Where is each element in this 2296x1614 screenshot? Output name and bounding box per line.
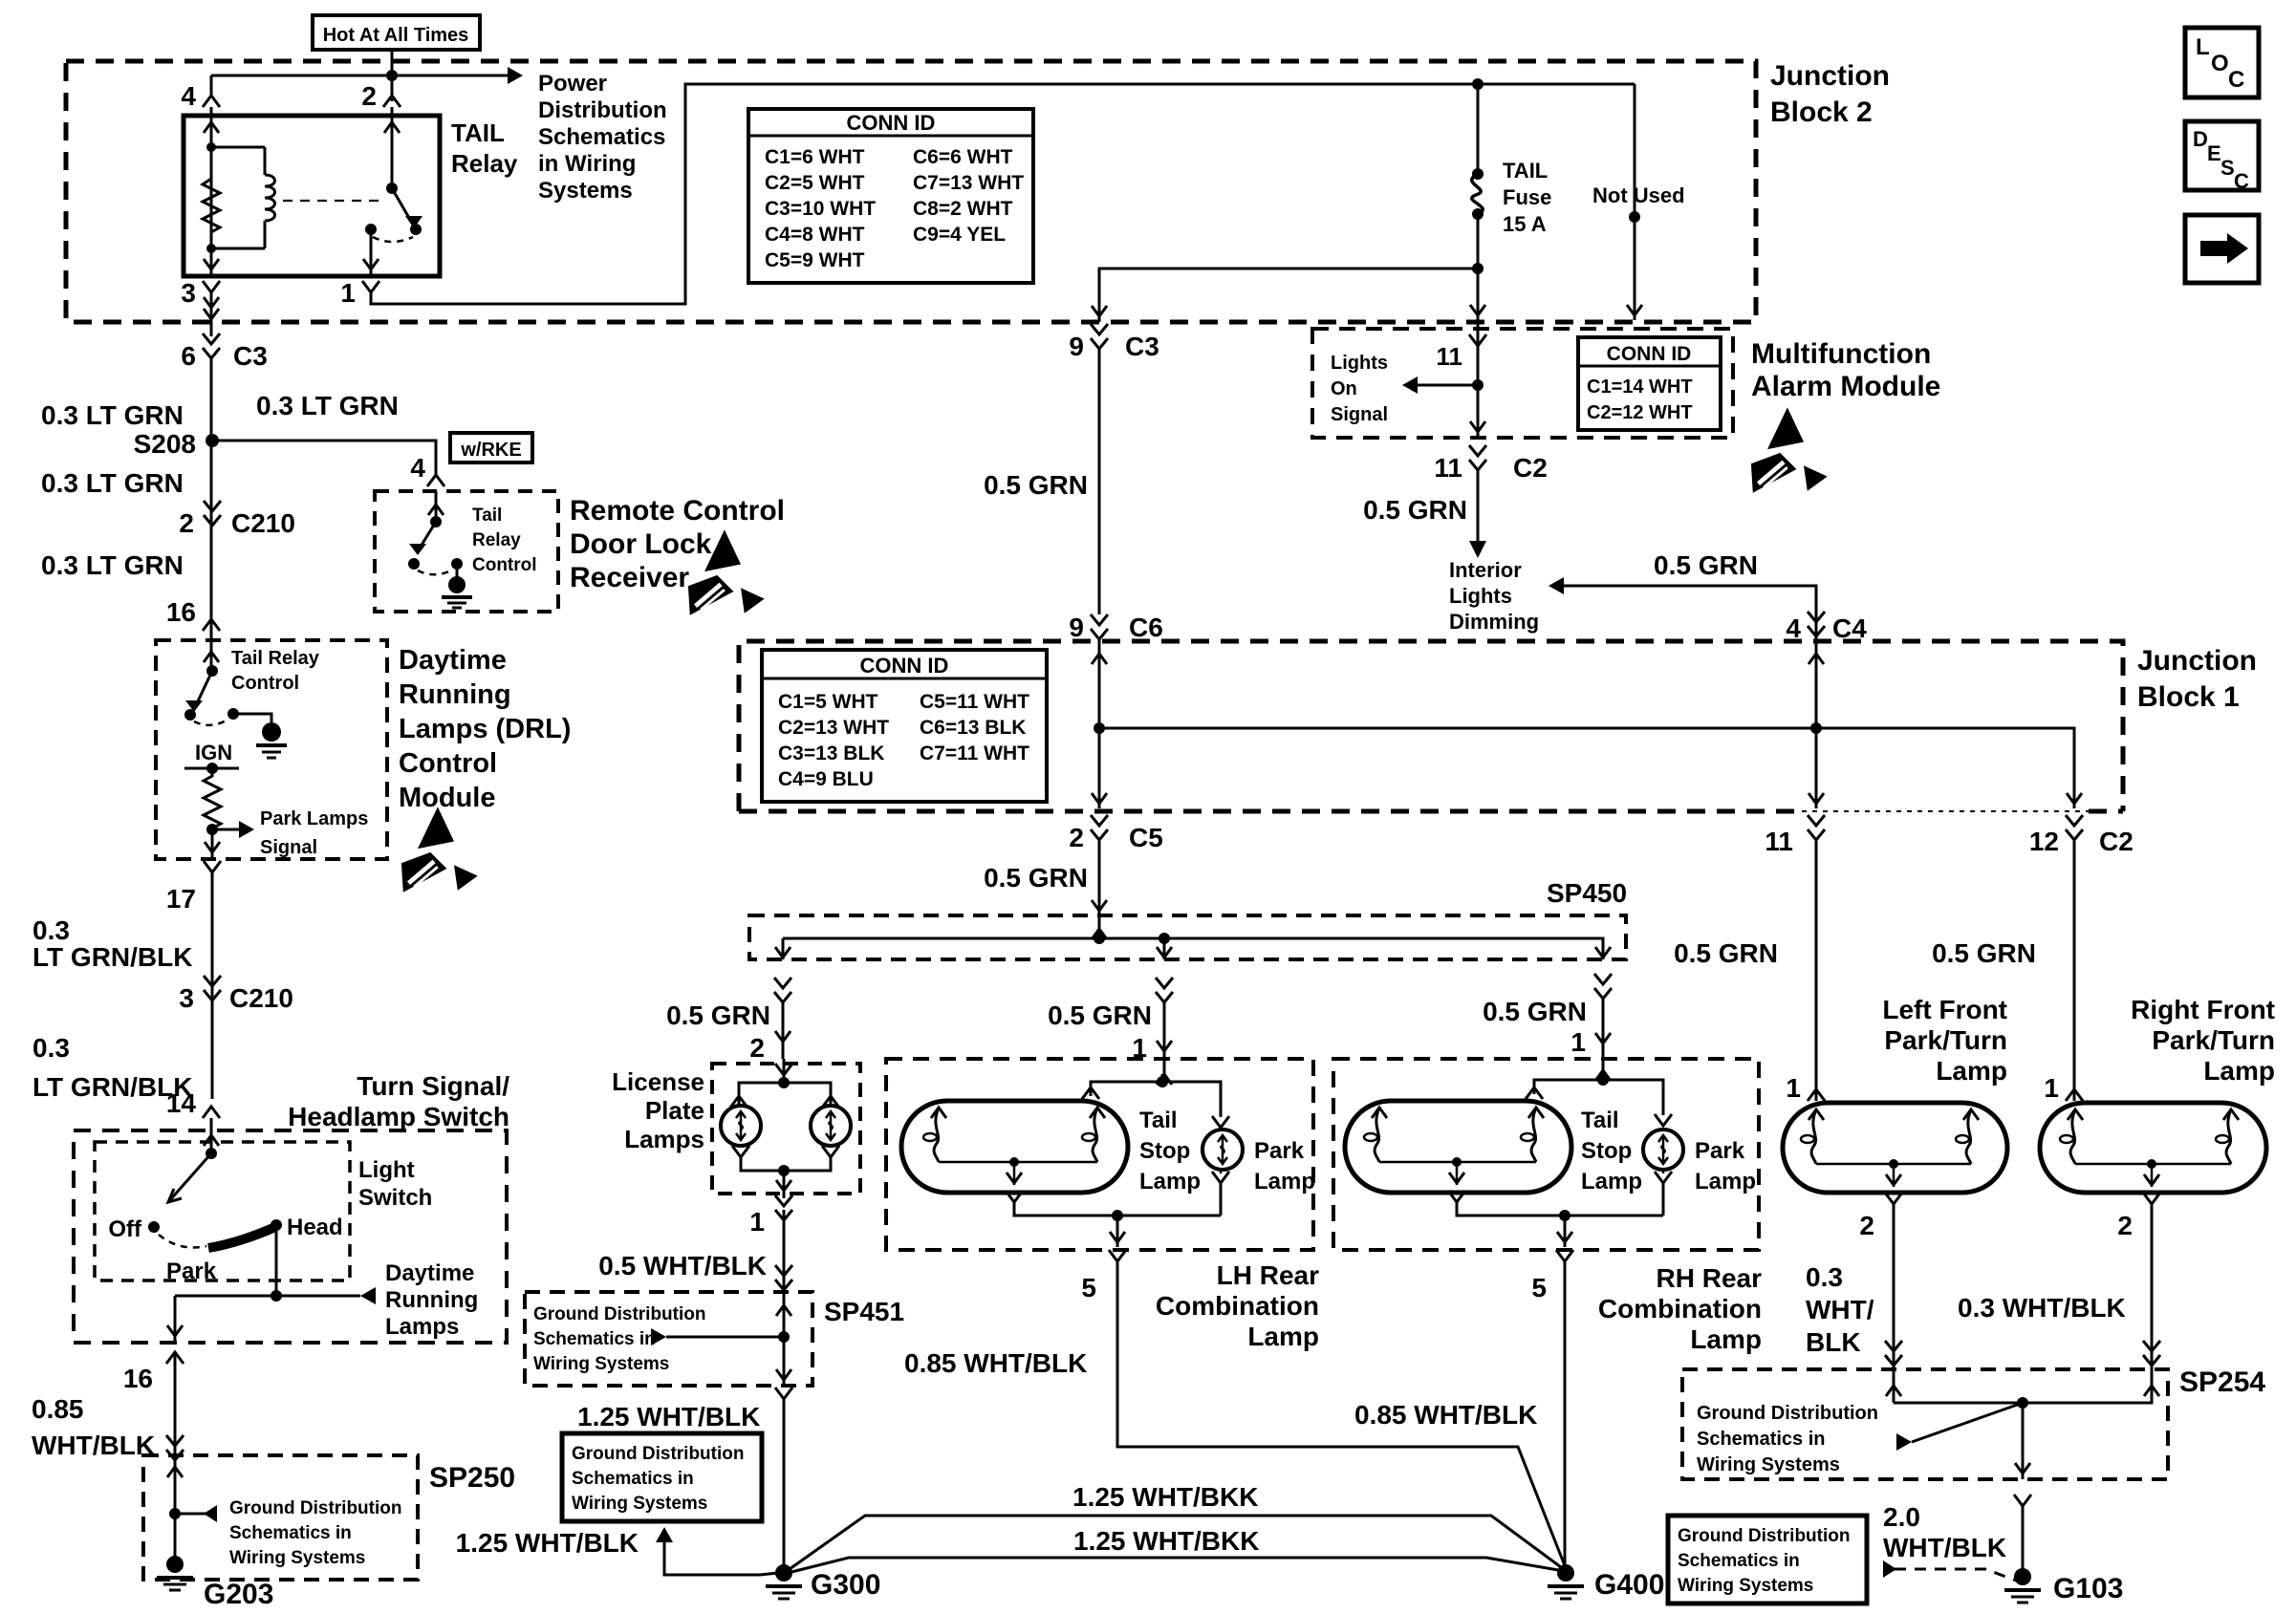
dashed relay actuation link	[283, 200, 386, 202]
svg-text:LT GRN/BLK: LT GRN/BLK	[32, 942, 192, 972]
svg-text:0.5 GRN: 0.5 GRN	[984, 863, 1088, 893]
node power-rail junction	[386, 70, 398, 81]
wire park lamps signal	[212, 829, 239, 831]
wire lh to G400	[1117, 1261, 1566, 1568]
connector switch pin 14	[203, 1107, 220, 1118]
lh rear combination lamp dashed box	[886, 1059, 1313, 1250]
wire relay common out	[370, 229, 373, 276]
svg-text:S208: S208	[134, 429, 196, 459]
svg-text:Tail: Tail	[472, 506, 502, 526]
svg-text:Control: Control	[472, 555, 537, 575]
wire SP254 rail left	[1894, 1402, 2023, 1405]
node not-used terminal	[1629, 211, 1640, 223]
connector relay pin 2	[383, 96, 401, 107]
svg-text:Lamp: Lamp	[1581, 1169, 1642, 1194]
connector lh park fork	[1212, 1116, 1229, 1128]
svg-text:16: 16	[166, 597, 196, 627]
filament lh stop	[931, 1108, 946, 1118]
node contact Head	[271, 1219, 282, 1231]
arrow park lamps signal	[239, 821, 254, 838]
connector C3 pin 6	[203, 334, 220, 344]
svg-text:Plate: Plate	[645, 1096, 704, 1125]
svg-text:CONN ID: CONN ID	[1607, 343, 1692, 365]
arrow lights-on	[1402, 377, 1418, 394]
node lh feed split	[1157, 1076, 1168, 1087]
svg-text:Lamps (DRL): Lamps (DRL)	[399, 714, 571, 744]
svg-text:Lamp: Lamp	[1247, 1322, 1319, 1351]
wire IGN rail	[184, 767, 239, 770]
node fuse-rail tap	[1472, 78, 1484, 90]
wire RKE ground stem	[456, 564, 459, 581]
lamp license left	[721, 1106, 761, 1146]
svg-text:C5=9 WHT: C5=9 WHT	[765, 249, 865, 271]
arrow ref to G300	[656, 1527, 673, 1542]
wire SP250 ref	[175, 1513, 215, 1516]
svg-text:0.5 GRN: 0.5 GRN	[1363, 495, 1467, 525]
connector JB1 pin 11	[1808, 815, 1825, 826]
dashed ref wire to G103	[1895, 1569, 2019, 1582]
svg-text:Relay: Relay	[451, 149, 518, 178]
svg-text:C9=4 YEL: C9=4 YEL	[913, 224, 1006, 246]
svg-text:LH Rear: LH Rear	[1217, 1260, 1319, 1290]
connector lh pin 1	[1156, 978, 1173, 988]
wire pin1 loop to fuse rail	[371, 84, 1635, 304]
splice SP254 dashed box	[1682, 1369, 2168, 1479]
connector license bulb R out	[822, 1146, 839, 1157]
svg-text:C2: C2	[2099, 827, 2134, 856]
svg-text:Park: Park	[166, 1259, 217, 1284]
filament lf turn	[1963, 1109, 1979, 1120]
node license out	[778, 1165, 790, 1176]
arrow to power distribution	[508, 67, 523, 84]
svg-text:Dimming: Dimming	[1449, 610, 1539, 634]
wire lights-on branch	[1418, 384, 1478, 387]
svg-text:1: 1	[2044, 1073, 2059, 1103]
svg-text:0.5 GRN: 0.5 GRN	[984, 470, 1088, 500]
svg-text:Wiring Systems: Wiring Systems	[1678, 1576, 1813, 1596]
node contact Off	[148, 1221, 160, 1233]
connector rh stadium out	[1448, 1191, 1465, 1202]
svg-text:Control: Control	[399, 748, 497, 779]
svg-text:Tail: Tail	[1581, 1108, 1619, 1133]
lamp rh park	[1643, 1130, 1683, 1170]
svg-text:2: 2	[749, 1033, 765, 1063]
connector C6 pin 9	[1091, 614, 1108, 625]
wire SP250 entry arrow	[167, 1467, 183, 1477]
remote control door lock receiver dashed box	[375, 491, 558, 612]
fuse TAIL 15A	[1472, 168, 1484, 180]
wire ground link A	[790, 1516, 1561, 1569]
wire rh ground drop	[1564, 1216, 1567, 1247]
wire S208 branch to RKE	[212, 441, 436, 475]
svg-text:C1=5 WHT: C1=5 WHT	[778, 691, 878, 713]
wire rh ground rail	[1457, 1202, 1663, 1216]
svg-text:Receiver: Receiver	[570, 562, 689, 593]
wire C5 to SP450	[1098, 840, 1101, 917]
wire G103 drop	[2022, 1506, 2025, 1573]
svg-text:Ground Distribution: Ground Distribution	[572, 1444, 744, 1464]
svg-text:Park/Turn: Park/Turn	[2152, 1025, 2275, 1055]
svg-text:Tail: Tail	[1139, 1108, 1178, 1133]
svg-text:TAIL: TAIL	[1503, 159, 1548, 183]
svg-text:Combination: Combination	[1598, 1294, 1762, 1323]
node coil bottom	[206, 244, 216, 253]
RKE switch arm	[421, 522, 436, 547]
filament rh stop	[1372, 1108, 1387, 1118]
wire rh lamp drop	[1602, 999, 1605, 1080]
svg-text:C: C	[2234, 169, 2249, 193]
svg-text:O: O	[2211, 51, 2229, 76]
svg-text:16: 16	[123, 1364, 153, 1393]
svg-text:Door Lock: Door Lock	[570, 528, 712, 560]
svg-text:Lamps: Lamps	[624, 1125, 704, 1153]
wire ref to G300	[664, 1540, 778, 1575]
wire ground link B	[788, 1558, 1558, 1573]
svg-text:C2: C2	[1513, 453, 1548, 483]
wire 0.5 GRN C3 to C6	[1098, 349, 1101, 614]
arrow SP450 exit lh	[1157, 947, 1172, 958]
connector lh tail fork	[1082, 1087, 1099, 1099]
arrow SP451 ref	[651, 1328, 666, 1345]
svg-text:Lamp: Lamp	[1690, 1324, 1762, 1354]
svg-text:Ground Distribution: Ground Distribution	[1697, 1403, 1878, 1424]
svg-text:Schematics: Schematics	[538, 124, 665, 150]
node rh inner	[1452, 1157, 1462, 1167]
svg-text:C7=13 WHT: C7=13 WHT	[913, 172, 1024, 194]
svg-text:Lamps: Lamps	[385, 1314, 459, 1340]
wire SP450 entry	[1098, 917, 1101, 938]
connector C5 pin 2	[1091, 815, 1108, 826]
svg-text:0.85 WHT/BLK: 0.85 WHT/BLK	[904, 1348, 1087, 1378]
node IGN tap	[206, 763, 218, 774]
node rf inner	[2147, 1159, 2156, 1169]
turn signal/headlamp switch dashed box	[74, 1130, 507, 1343]
wire lh inner drop	[1013, 1162, 1016, 1185]
svg-text:Multifunction: Multifunction	[1751, 338, 1931, 370]
svg-text:C210: C210	[231, 508, 295, 538]
wire SP451 ref	[666, 1336, 784, 1339]
DRL control module dashed box	[156, 640, 387, 859]
connector DRL pin 16	[203, 619, 220, 631]
wire lh ground drop	[1116, 1216, 1119, 1247]
ground G300	[775, 1564, 792, 1582]
light switch dashed box	[95, 1142, 350, 1280]
wire JB1 internal rail	[1099, 728, 2074, 808]
ground RKE internal	[448, 576, 466, 593]
svg-text:C5=11 WHT: C5=11 WHT	[920, 691, 1029, 713]
junction block 1 dashed enclosure	[739, 641, 2123, 811]
node JB1 rail left	[1094, 722, 1105, 734]
svg-text:Module: Module	[399, 783, 496, 813]
connector switch pin 16	[166, 1352, 184, 1364]
connector relay pin 3	[203, 281, 220, 292]
connector C4 pin 4	[1808, 612, 1825, 622]
ground G203	[166, 1556, 184, 1573]
node RKE contact	[408, 558, 420, 570]
svg-text:BLK: BLK	[1806, 1327, 1861, 1357]
svg-text:C2=5 WHT: C2=5 WHT	[765, 172, 865, 194]
wire JB1 left vertical	[1098, 638, 1101, 808]
node lh ground	[1112, 1210, 1123, 1221]
svg-text:Wiring Systems: Wiring Systems	[572, 1494, 707, 1514]
svg-text:C3: C3	[1125, 332, 1159, 361]
wire rh inner drop	[1456, 1162, 1459, 1185]
svg-text:Park/Turn: Park/Turn	[1884, 1025, 2007, 1055]
stadium rf park/turn lamp	[2040, 1103, 2266, 1193]
svg-text:SP451: SP451	[824, 1297, 904, 1326]
svg-text:17: 17	[166, 884, 196, 914]
svg-text:0.85 WHT/BLK: 0.85 WHT/BLK	[1354, 1400, 1537, 1430]
svg-text:11: 11	[1765, 827, 1793, 856]
DRL switch arm	[197, 671, 212, 703]
svg-text:Head: Head	[287, 1215, 343, 1240]
conn id table JB2	[748, 109, 1033, 283]
wire rf to SP254	[2023, 1204, 2152, 1403]
wire license to SP451	[783, 1210, 786, 1294]
wire license rail	[739, 1083, 831, 1106]
svg-text:L: L	[2196, 34, 2210, 60]
wire SP254 ref diagonal	[1912, 1403, 2023, 1442]
wire head to rail	[275, 1225, 278, 1296]
arrow SP450 exit rh	[1595, 947, 1611, 958]
connector rf pin 2	[2143, 1193, 2160, 1204]
svg-text:9: 9	[1069, 613, 1084, 642]
TAIL relay box	[184, 116, 440, 276]
svg-text:Block 2: Block 2	[1770, 97, 1873, 128]
node fuse output tap	[1472, 263, 1484, 274]
svg-text:0.5 GRN: 0.5 GRN	[1483, 997, 1587, 1026]
wire TAIL fuse upper	[1477, 84, 1480, 172]
svg-text:Lamp: Lamp	[1139, 1169, 1201, 1194]
svg-text:Daytime: Daytime	[399, 645, 507, 676]
node RKE common	[451, 558, 463, 570]
wire SP450 lh drop	[1163, 938, 1166, 959]
svg-text:Signal: Signal	[1331, 404, 1388, 425]
arrow dimming feed	[1549, 577, 1564, 594]
svg-text:1.25 WHT/BKK: 1.25 WHT/BKK	[1073, 1526, 1259, 1556]
svg-text:5: 5	[1531, 1273, 1547, 1302]
w/RKE box	[450, 433, 532, 463]
dashed RKE arc	[418, 570, 453, 574]
connector lf pin 2	[1885, 1193, 1902, 1204]
svg-text:Daytime: Daytime	[385, 1260, 474, 1286]
svg-text:Wiring Systems: Wiring Systems	[1697, 1454, 1840, 1475]
connector rh park fork	[1655, 1114, 1672, 1126]
ground DRL internal	[262, 722, 281, 742]
node DRL common	[227, 708, 239, 720]
svg-text:4: 4	[181, 81, 196, 111]
svg-text:Lamp: Lamp	[1936, 1056, 2007, 1086]
svg-text:Hot At All Times: Hot At All Times	[323, 25, 469, 46]
wire coil branch bottom	[211, 247, 265, 250]
svg-text:0.3: 0.3	[1806, 1262, 1843, 1292]
svg-text:0.3 LT GRN: 0.3 LT GRN	[256, 391, 399, 420]
svg-text:0.3 WHT/BLK: 0.3 WHT/BLK	[1958, 1293, 2126, 1323]
wire relay coil leg	[210, 107, 213, 276]
svg-text:1.25 WHT/BKK: 1.25 WHT/BKK	[1072, 1482, 1258, 1512]
svg-text:0.5 GRN: 0.5 GRN	[1654, 550, 1758, 580]
svg-text:IGN: IGN	[195, 741, 232, 764]
arrow daytime running lamps	[360, 1287, 376, 1304]
svg-text:Stop: Stop	[1581, 1138, 1632, 1164]
svg-text:G203: G203	[204, 1579, 273, 1609]
wire lf inner drop	[1893, 1164, 1895, 1187]
svg-text:14: 14	[166, 1088, 197, 1118]
stadium lf park/turn lamp	[1783, 1103, 2007, 1193]
svg-text:0.85: 0.85	[32, 1394, 84, 1424]
svg-text:Wiring Systems: Wiring Systems	[229, 1548, 365, 1568]
svg-text:C3=13 BLK: C3=13 BLK	[778, 742, 884, 764]
svg-text:C1=6 WHT: C1=6 WHT	[765, 146, 865, 168]
wire not-used drop	[1634, 84, 1636, 320]
svg-text:Off: Off	[108, 1216, 142, 1242]
wire DRL input	[210, 631, 213, 671]
wire SP250 to G203	[174, 1514, 177, 1558]
wire JB1 right vertical	[1815, 586, 1818, 808]
filament lf park	[1809, 1109, 1824, 1120]
svg-text:Systems: Systems	[538, 178, 633, 204]
connector C2 pin 11 (MF)	[1469, 445, 1486, 456]
wire license drop	[782, 1002, 785, 1059]
svg-text:C7=11 WHT: C7=11 WHT	[920, 742, 1029, 764]
svg-text:Turn Signal/: Turn Signal/	[357, 1071, 509, 1101]
svg-text:C4=9 BLU: C4=9 BLU	[778, 768, 874, 790]
connector C3 pin 9	[1091, 324, 1108, 334]
svg-text:SP450: SP450	[1547, 878, 1627, 908]
svg-text:Junction: Junction	[1770, 60, 1890, 92]
svg-text:2: 2	[361, 81, 377, 111]
connector license bulb L	[730, 1096, 747, 1108]
connector below SP451	[775, 1388, 792, 1399]
svg-text:WHT/BLK: WHT/BLK	[32, 1431, 155, 1460]
node rh feed split	[1597, 1074, 1609, 1086]
resistor DRL park-lamps	[204, 768, 221, 829]
conn id table JB1	[762, 650, 1047, 802]
arrow interior lights dimming down	[1469, 541, 1486, 558]
svg-text:Ground Distribution: Ground Distribution	[1678, 1526, 1850, 1546]
wire power distribution rail	[211, 75, 508, 77]
connector license pin 2	[774, 978, 791, 988]
node relay common	[365, 224, 377, 235]
wire lf lamp feed	[1815, 840, 1818, 1101]
wire license ground drop	[783, 1171, 786, 1198]
wire hot-feed vertical	[391, 50, 394, 101]
connector C210 pin 2	[204, 501, 221, 511]
svg-text:C4: C4	[1832, 613, 1867, 643]
svg-text:Distribution: Distribution	[538, 97, 667, 123]
wire SP451 entry	[783, 1294, 786, 1386]
svg-text:Schematics in: Schematics in	[1697, 1429, 1826, 1450]
svg-text:Relay: Relay	[472, 530, 521, 550]
svg-text:Remote Control: Remote Control	[570, 495, 785, 527]
svg-text:WHT/BLK: WHT/BLK	[1883, 1533, 2006, 1562]
svg-text:C2=13 WHT: C2=13 WHT	[778, 717, 889, 739]
svg-text:S: S	[2220, 156, 2235, 180]
wire lh lamp drop	[1163, 1002, 1166, 1080]
svg-text:CONN ID: CONN ID	[860, 654, 949, 678]
node lights-on tap	[1472, 379, 1484, 391]
svg-text:12: 12	[2029, 827, 2059, 856]
esd symbol MF	[1751, 407, 1828, 492]
svg-text:Running: Running	[385, 1287, 478, 1313]
svg-text:Park: Park	[1254, 1138, 1305, 1164]
svg-text:2: 2	[2117, 1211, 2133, 1240]
filament lh tail	[1090, 1108, 1105, 1118]
DESC reference box	[2185, 121, 2259, 190]
svg-text:C3: C3	[233, 341, 268, 371]
connector C2 pin 12	[2066, 815, 2083, 826]
node DRL rail tap	[271, 1290, 282, 1302]
connector rh pin 1	[1594, 974, 1612, 984]
svg-text:3: 3	[181, 278, 196, 308]
svg-text:0.5 GRN: 0.5 GRN	[1674, 938, 1778, 968]
svg-text:C6: C6	[1129, 613, 1163, 642]
svg-text:Lights: Lights	[1331, 353, 1388, 374]
svg-text:5: 5	[1081, 1273, 1096, 1302]
node lh inner	[1009, 1157, 1019, 1167]
svg-text:Lamp: Lamp	[2203, 1056, 2275, 1086]
svg-text:1.25 WHT/BLK: 1.25 WHT/BLK	[456, 1528, 639, 1558]
node license rail	[778, 1077, 790, 1088]
dashed arc Off-Park	[159, 1235, 206, 1248]
node park lamps tap	[206, 824, 218, 835]
svg-text:Fuse: Fuse	[1503, 185, 1551, 209]
light switch arm	[168, 1153, 211, 1202]
dashed DRL arc	[194, 719, 229, 725]
arrow reference box	[2185, 215, 2259, 283]
wire lh feed rail	[1091, 1082, 1221, 1114]
svg-text:0.3 LT GRN: 0.3 LT GRN	[41, 550, 184, 580]
conn id table MF	[1578, 337, 1721, 430]
wire dimming feed from C4	[1564, 586, 1816, 613]
svg-text:G103: G103	[2053, 1573, 2123, 1604]
svg-text:Junction: Junction	[2137, 645, 2257, 677]
svg-text:Power: Power	[538, 71, 607, 97]
svg-text:2.0: 2.0	[1883, 1502, 1920, 1532]
svg-text:C210: C210	[229, 983, 293, 1013]
node SP451 tap	[778, 1331, 790, 1343]
svg-text:Lamp: Lamp	[1695, 1169, 1756, 1194]
ground G400	[1557, 1564, 1574, 1582]
wire license out rail	[741, 1157, 831, 1171]
stadium lh tail-stop lamp	[901, 1101, 1128, 1193]
arrow SP254 ref	[1896, 1433, 1912, 1451]
svg-text:6: 6	[181, 341, 196, 371]
svg-text:Ground Distribution: Ground Distribution	[533, 1304, 705, 1324]
node coil top	[206, 142, 216, 152]
arrow SP450 exit license	[775, 947, 791, 958]
ground distribution box (bottom solid)	[1668, 1516, 1867, 1603]
arrow dashed ref	[1883, 1560, 1896, 1578]
svg-text:CONN ID: CONN ID	[847, 111, 936, 135]
wire rf lamp feed	[2073, 840, 2076, 1101]
node JB1 rail right	[1810, 722, 1822, 734]
svg-text:11: 11	[1434, 453, 1462, 483]
svg-text:Control: Control	[231, 673, 299, 694]
svg-text:Not Used: Not Used	[1592, 183, 1685, 207]
wire lh ground rail	[1014, 1202, 1221, 1216]
svg-text:C: C	[2228, 67, 2244, 93]
svg-text:Schematics in: Schematics in	[533, 1329, 656, 1349]
svg-text:Park: Park	[1695, 1138, 1745, 1164]
svg-text:4: 4	[1786, 613, 1801, 643]
svg-text:TAIL: TAIL	[451, 118, 505, 147]
wire lf to SP254	[1893, 1204, 1895, 1403]
svg-text:On: On	[1331, 378, 1357, 399]
wire MF pin11 input	[1477, 322, 1480, 438]
node DRL contact	[184, 709, 196, 721]
svg-text:C4=8 WHT: C4=8 WHT	[765, 224, 865, 246]
